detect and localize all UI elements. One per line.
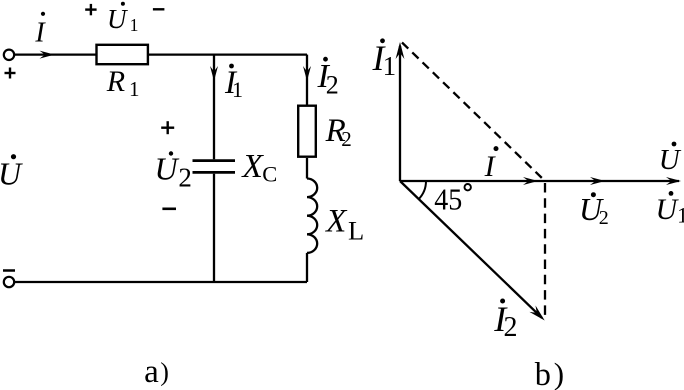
svg-text:L: L xyxy=(348,216,364,246)
svg-text:I: I xyxy=(34,18,46,49)
svg-text:2: 2 xyxy=(178,163,192,193)
svg-text:b: b xyxy=(535,356,551,390)
svg-text:1: 1 xyxy=(130,15,139,35)
svg-text:): ) xyxy=(160,358,169,387)
svg-text:): ) xyxy=(554,356,564,390)
svg-text:a: a xyxy=(144,354,159,390)
svg-text:X: X xyxy=(324,203,348,239)
svg-text:1: 1 xyxy=(677,203,684,228)
svg-text:2: 2 xyxy=(341,127,352,151)
svg-text:I: I xyxy=(484,150,497,183)
svg-text:U: U xyxy=(659,144,682,176)
svg-text:X: X xyxy=(240,148,264,185)
svg-text:U: U xyxy=(656,193,680,226)
svg-text:45: 45 xyxy=(434,182,462,217)
svg-text:1: 1 xyxy=(232,77,243,102)
svg-text:U: U xyxy=(107,4,128,34)
svg-text:U: U xyxy=(0,156,23,192)
svg-text:2: 2 xyxy=(504,312,518,343)
svg-text:2: 2 xyxy=(599,207,609,229)
svg-text:1: 1 xyxy=(383,51,397,81)
svg-text:1: 1 xyxy=(129,77,140,101)
svg-text:U: U xyxy=(155,150,180,186)
svg-text:2: 2 xyxy=(326,71,339,100)
svg-text:R: R xyxy=(106,65,125,98)
svg-text:C: C xyxy=(262,162,277,187)
